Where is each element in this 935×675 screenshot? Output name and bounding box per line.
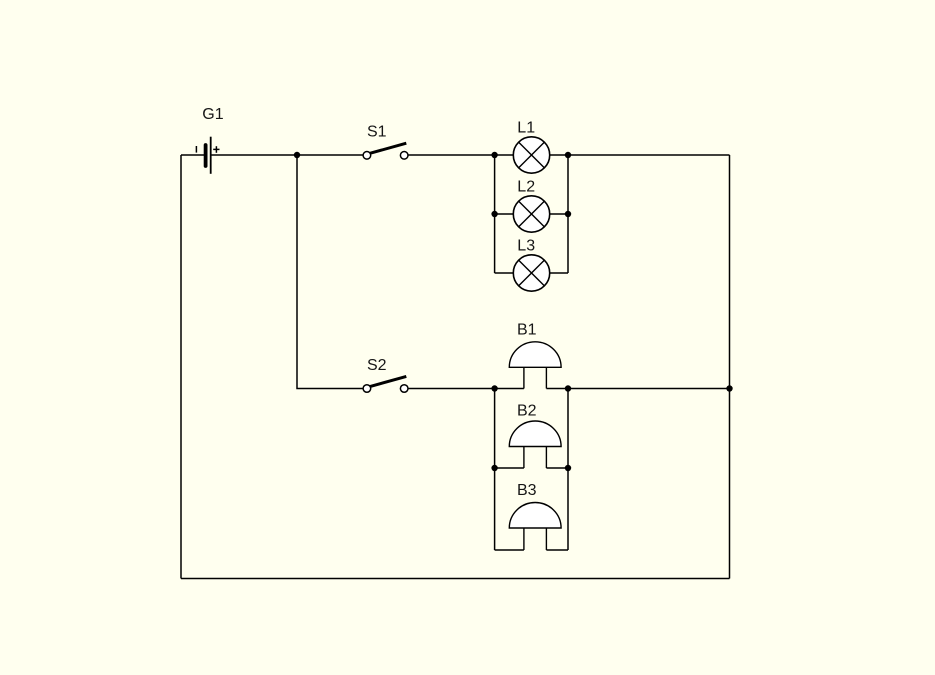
wire: L2 left stub — [495, 213, 514, 215]
node: right rail junction — [726, 385, 732, 391]
node: L1 left junction — [491, 152, 497, 158]
bell B3 — [509, 503, 561, 550]
wire: top row, L1 to right rail — [550, 154, 730, 156]
svg-text:G1: G1 — [202, 106, 223, 123]
wire: bottom — [181, 578, 730, 580]
svg-text:L2: L2 — [517, 179, 535, 196]
wire: branch from node A down to S2 — [297, 155, 363, 389]
wire: S2 to bell B1 left leg — [408, 388, 524, 390]
svg-text:B3: B3 — [517, 482, 537, 499]
lamp L2 — [513, 196, 549, 232]
bell B1 — [509, 342, 561, 389]
node A: battery branch junction — [294, 152, 300, 158]
wire: left rail — [180, 155, 182, 579]
switch S1 — [363, 143, 408, 159]
wire: B2 right stub — [546, 467, 568, 469]
wire: right rail — [729, 155, 731, 579]
wire: L3 right stub — [550, 272, 568, 274]
node: B2 right junction — [565, 465, 571, 471]
wire: lamp bus left — [494, 155, 496, 273]
svg-text:S1: S1 — [367, 124, 387, 141]
wire: B3 right stub — [546, 549, 568, 551]
svg-text:L1: L1 — [517, 120, 535, 137]
switch S2 — [363, 376, 408, 392]
wire: top row, left rail to battery — [181, 154, 204, 156]
svg-text:L3: L3 — [517, 238, 535, 255]
wire: B1 right leg to right rail — [546, 388, 729, 390]
wire: B3 left stub — [495, 549, 524, 551]
node: B1 left junction — [491, 385, 497, 391]
lamp L3 — [513, 255, 549, 291]
node: L2 left junction — [491, 211, 497, 217]
node: L1 right junction — [565, 152, 571, 158]
node: B1 right junction — [565, 385, 571, 391]
wire: L3 left stub — [495, 272, 514, 274]
battery G1 — [196, 137, 219, 174]
wire: top row, S1 to lamp L1 — [408, 154, 514, 156]
node: B2 left junction — [491, 465, 497, 471]
wire: bell bus right — [567, 389, 569, 551]
wire: lamp bus right — [567, 155, 569, 273]
node: L2 right junction — [565, 211, 571, 217]
wire: B2 left stub — [495, 467, 524, 469]
lamp L1 — [513, 137, 549, 173]
wire: bell bus left — [494, 389, 496, 551]
wire: L2 right stub — [550, 213, 568, 215]
bell B2 — [509, 421, 561, 468]
svg-text:B2: B2 — [517, 402, 537, 419]
svg-text:B1: B1 — [517, 322, 537, 339]
svg-text:S2: S2 — [367, 357, 387, 374]
wire: top row, battery to switch S1 — [212, 154, 364, 156]
